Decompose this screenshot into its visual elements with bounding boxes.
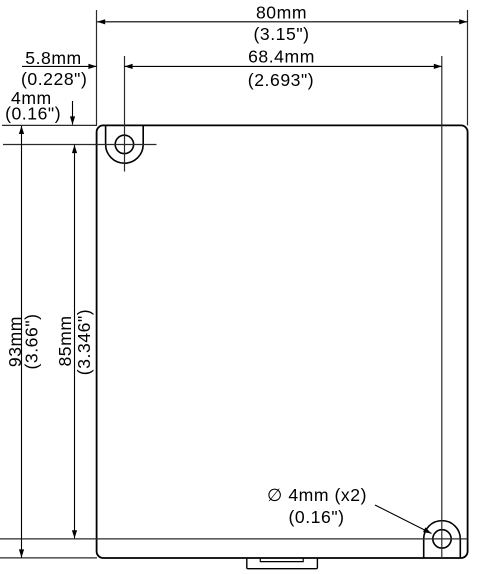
board outline [97, 125, 468, 558]
top-left mounting tab [106, 125, 144, 163]
svg-text:∅ 4mm (x2): ∅ 4mm (x2) [267, 485, 367, 505]
svg-text:68.4mm: 68.4mm [248, 47, 315, 67]
bottom-right hole crosshair horizontal / extension line [0, 538, 468, 540]
dimension 93mm line [21, 126, 23, 558]
bottom connector tab outer [247, 558, 318, 569]
dimension 4mm down arrow [72, 101, 74, 125]
svg-text:(0.228"): (0.228") [21, 69, 87, 89]
top-left hole crosshair vertical / extension line [124, 56, 126, 172]
svg-text:(3.346"): (3.346") [74, 309, 94, 375]
dimension 85mm line [74, 145, 76, 539]
extension line: right edge up [467, 10, 469, 125]
svg-text:85mm: 85mm [55, 315, 75, 366]
extension line: left edge up [96, 10, 98, 125]
svg-text:(2.693"): (2.693") [248, 70, 314, 90]
svg-text:(0.16"): (0.16") [288, 507, 344, 527]
dimension 80mm line [97, 21, 467, 23]
svg-text:5.8mm: 5.8mm [25, 48, 82, 68]
bottom connector tab inner [260, 558, 303, 562]
top-left hole [115, 135, 133, 153]
svg-text:80mm: 80mm [256, 3, 307, 23]
bottom-right hole [433, 530, 451, 548]
dimension 5.8mm arrow line [22, 65, 97, 67]
top-left hole crosshair horizontal / extension line [3, 144, 157, 146]
hole callout leader [375, 505, 432, 534]
bottom-right mounting tab [424, 521, 461, 558]
bottom-right hole crosshair vertical / extension line [441, 56, 443, 558]
svg-text:(0.16"): (0.16") [5, 103, 61, 123]
extension line: bottom edge left [0, 557, 97, 559]
extension line: top edge left [2, 124, 97, 126]
dimension 68.4mm line [124, 65, 442, 67]
svg-text:(3.66"): (3.66") [21, 313, 41, 369]
svg-text:(3.15"): (3.15") [253, 24, 309, 44]
